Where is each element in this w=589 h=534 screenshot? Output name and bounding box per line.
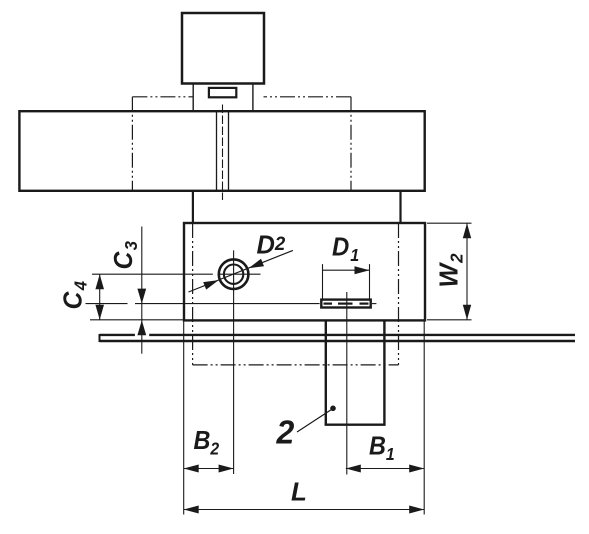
D2 arrowheads [249,259,264,268]
D1 extension lines [322,264,324,300]
B2 dimension line [184,468,234,470]
item 2 leader [297,409,333,433]
C4 dimension line [99,274,101,320]
C3 dimension line with outside arrows [141,227,143,354]
label L [291,477,307,507]
follower circle (D2 hole) [219,259,249,289]
circle horizontal centerline [92,273,213,275]
bolt (item 2) [325,320,327,424]
label C4 (rotated) [59,280,90,309]
W2 extension lines [427,222,472,224]
label W2 (rotated) [435,253,466,288]
slot (D1) [321,300,370,308]
label C3 (rotated) [109,240,140,269]
svg-text:L: L [291,477,307,507]
body (lock case section) [184,223,425,320]
label 2 (item number) [276,414,295,451]
L dimension line [184,509,425,511]
B1 dimension line [346,468,424,470]
label D1 [332,233,359,265]
phantom outline lower (lock case), dash-dot-dot [193,223,399,365]
lower extension lines [183,320,185,514]
slot horizontal centerline thin [86,303,128,305]
neck between bar and body [192,191,194,223]
knob (square) [182,13,264,84]
white mask under knob neck [193,85,264,110]
bar (long plate through which spindle passes) [19,111,424,191]
label B1 [369,432,395,464]
spindle centerline dashed [222,105,224,201]
label B2 [194,427,220,458]
C4 extension lines [90,319,184,321]
spindle through bar [216,111,218,191]
label D2 [257,231,286,259]
D2 leader diagonal [189,250,293,292]
slot/bolt vertical centerline [346,292,348,475]
svg-text:2: 2 [276,414,295,451]
spindle retainer small rect [209,88,236,97]
W2 dimension line [466,223,468,320]
phantom outline upper (escutcheon), dash-dot-dot [132,97,351,191]
plate (faceplate, long thin) [100,334,135,336]
knob neck [192,84,194,112]
circle vertical centerline (extends to B2 dim) [233,250,235,474]
D1 dimension line + right arrow [323,269,370,271]
